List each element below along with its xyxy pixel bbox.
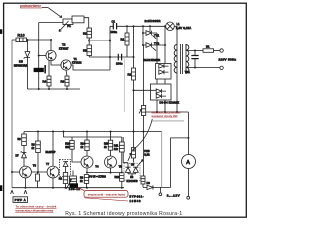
resistor R12	[115, 173, 125, 182]
wire y187.4	[143, 186, 171, 188]
svg-text:T7: T7	[46, 162, 50, 166]
diode D9	[147, 181, 154, 189]
svg-text:R12: R12	[115, 176, 120, 179]
node dot R3-R5	[88, 40, 90, 42]
thyristor TY2	[143, 42, 165, 51]
wire zener branch x27.4	[26, 40, 28, 89]
resistor R11 box	[72, 16, 84, 23]
wire y26.3 rail	[110, 25, 166, 27]
svg-text:BYP401-: BYP401-	[130, 195, 144, 199]
svg-text:B1: B1	[206, 45, 210, 49]
wire bottom rail y187.7	[12, 187, 124, 189]
resistor R2	[128, 68, 136, 80]
svg-text:220V 50Hz: 220V 50Hz	[219, 57, 237, 61]
wire to D8 tops	[123, 158, 133, 163]
diode D8b	[133, 167, 138, 174]
svg-text:T4-T5 = KT503: T4-T5 = KT503	[89, 176, 107, 179]
trimmer R16	[139, 45, 146, 132]
resistor R1	[121, 26, 130, 57]
transformer TR1	[174, 44, 190, 74]
zener D5	[14, 52, 30, 68]
arrow terminal 2	[24, 190, 27, 194]
diode bus right x165	[164, 26, 166, 63]
wire y89 rail	[27, 88, 80, 90]
svg-text:Rys. 1 Schemat ideowy prostown: Rys. 1 Schemat ideowy prostownika Rosura…	[65, 211, 182, 217]
wire T1 emitter down	[66, 70, 67, 76]
svg-text:D1-D2 KD202R: D1-D2 KD202R	[144, 59, 161, 62]
wire y90.3 feed	[134, 89, 157, 91]
terminal output left	[159, 187, 162, 195]
svg-text:bezpiecznik - znacznie lepiej: bezpiecznik - znacznie lepiej	[88, 192, 125, 196]
central spine x133.5	[133, 26, 135, 131]
diode module box1	[156, 64, 172, 80]
svg-text:A: A	[186, 160, 190, 166]
diode column x65.5	[63, 162, 68, 173]
diode D1	[159, 64, 169, 68]
zener D7	[16, 151, 27, 166]
wire pot right jog to R3	[84, 18, 89, 28]
svg-text:podświetlenie: podświetlenie	[20, 4, 41, 8]
diode D4	[156, 94, 166, 98]
red annotation 4: bottom left text	[14, 205, 56, 213]
red annotation 2: middle right	[133, 110, 185, 151]
node dot R10 right	[26, 39, 28, 41]
wire y57 rail	[89, 56, 133, 58]
terminal 220V bottom	[220, 66, 223, 69]
wire x38.7 down	[38, 23, 40, 90]
svg-text:10N40: 10N40	[130, 199, 142, 203]
wire T2 base left	[39, 55, 46, 57]
resistor column x38	[32, 131, 56, 173]
resistor R3	[83, 28, 92, 38]
terminal 220V top	[220, 49, 223, 52]
wire primary bottom	[186, 68, 220, 75]
capacitor C4	[191, 51, 198, 68]
wire rail stub x150	[149, 26, 151, 33]
T4 T5 emitter bus	[87, 168, 122, 173]
resistor R13	[137, 132, 145, 188]
resistor R6	[61, 76, 70, 89]
svg-text:R3: R3	[83, 32, 87, 36]
resistor R11 on return wire	[119, 142, 124, 152]
wire T4 top	[86, 151, 88, 157]
svg-text:BZP683C9V1: BZP683C9V1	[14, 64, 28, 67]
svg-text:L1: L1	[177, 22, 180, 26]
transistor T7	[46, 162, 59, 178]
wire x188.4 main output	[187, 112, 189, 155]
wires between module boxes	[157, 79, 165, 84]
svg-text:2xKD202R: 2xKD202R	[145, 19, 161, 23]
resistor R5	[83, 45, 92, 57]
svg-text:R6: R6	[61, 80, 65, 84]
svg-text:D9: D9	[147, 181, 151, 185]
thyristor TY1	[143, 31, 160, 39]
arrow terminal 1	[11, 190, 14, 194]
page border	[4, 3, 247, 217]
transistor T5	[105, 156, 123, 168]
trimmer P2B	[128, 132, 150, 162]
wire T7 emitter	[52, 178, 54, 188]
svg-text:D5: D5	[19, 60, 23, 64]
gray node line down	[124, 57, 126, 112]
diode D8a	[125, 163, 130, 174]
potentiometer P1 small box	[63, 19, 73, 28]
svg-text:wzmacniacz akumulatorowy: wzmacniacz akumulatorowy	[14, 209, 53, 213]
wire y112 output bus	[146, 111, 188, 113]
box x65.5 lower	[59, 173, 68, 188]
left edge mark 1	[0, 29, 2, 34]
svg-text:P1: P1	[67, 24, 71, 28]
svg-text:T5: T5	[119, 164, 123, 168]
svg-text:KD105B: KD105B	[127, 180, 138, 183]
svg-text:3,3k: 3,3k	[144, 153, 150, 157]
wire lamp to transformer	[174, 26, 177, 44]
left edge mark 2	[0, 185, 2, 191]
transistor T4	[81, 156, 99, 168]
capacitor C3	[116, 54, 123, 66]
resistor column x72	[65, 137, 81, 162]
svg-text:T6: T6	[33, 163, 37, 167]
fuse B1	[203, 45, 220, 53]
svg-text:R2: R2	[128, 73, 132, 77]
battery label box	[13, 197, 28, 203]
svg-text:R10: R10	[18, 34, 25, 38]
wire R3R5 node right	[89, 40, 110, 42]
ammeter A	[182, 155, 196, 169]
svg-text:wstawić diody KD: wstawić diody KD	[151, 114, 178, 118]
svg-text:T2: T2	[62, 43, 66, 47]
wire T1 collector right	[71, 65, 110, 70]
dashed box D6 D8	[124, 163, 140, 180]
svg-text:100n: 100n	[116, 62, 123, 66]
svg-text:R1: R1	[121, 38, 125, 42]
svg-text:C1: C1	[112, 20, 116, 24]
svg-text:100n: 100n	[111, 30, 118, 34]
potentiometer wiper arrow	[59, 21, 69, 32]
wire pot left lead	[39, 22, 63, 24]
wires module2 bottoms to y112	[157, 100, 165, 112]
svg-text:KT3107: KT3107	[59, 46, 69, 50]
resistor column x110.5	[104, 132, 113, 151]
lamp L1	[166, 22, 192, 31]
transistor T2	[46, 43, 69, 61]
diode D3	[156, 89, 166, 93]
wire rail y131.5	[24, 131, 162, 133]
small box below coupling	[36, 172, 40, 188]
svg-text:KT3102: KT3102	[72, 61, 82, 65]
wire T6 base from x12	[12, 171, 20, 173]
diode bus left x157	[156, 33, 158, 64]
wire ammeter to terminal	[187, 169, 189, 197]
wire x110 down	[109, 26, 111, 70]
wire T6 emitter	[25, 178, 27, 188]
capacitor C1	[111, 20, 118, 34]
wire TY anode bus	[142, 26, 144, 45]
red annotation 3: bottom box with leader	[78, 187, 129, 201]
capacitor C2	[34, 65, 46, 73]
svg-text:D3-D4 KD202K: D3-D4 KD202K	[160, 102, 180, 105]
node dots y89	[38, 88, 40, 90]
svg-text:R5: R5	[83, 49, 87, 53]
red annotation 1: top text with leader	[20, 4, 62, 18]
rail y137	[63, 132, 123, 188]
wire transformer secondary down	[176, 74, 178, 112]
svg-text:T4: T4	[95, 164, 99, 168]
wire T2 collector down	[48, 60, 50, 76]
diode pair bottom bus	[128, 174, 136, 177]
terminal output right	[187, 196, 190, 199]
svg-text:2,5V 0,15A: 2,5V 0,15A	[176, 26, 191, 30]
resistor column x87	[81, 132, 90, 151]
diode module box2	[151, 84, 172, 100]
wire R10 row y40	[12, 39, 51, 41]
svg-text:2...12V: 2...12V	[167, 193, 181, 197]
transistor T1	[61, 57, 82, 70]
resistor R17 column x24	[18, 132, 27, 153]
coupling wire T6 T7	[31, 171, 47, 173]
svg-text:T1: T1	[74, 57, 78, 61]
wire T7 top	[52, 132, 54, 167]
wire T5 top	[110, 150, 112, 156]
potentiometer P3	[66, 171, 80, 191]
resistor R10	[16, 34, 27, 42]
wire left bus x12	[11, 40, 13, 188]
gray return wire	[161, 132, 163, 188]
diode D2	[159, 70, 169, 74]
svg-text:PWF A: PWF A	[15, 198, 26, 202]
wire T2 emitter up	[50, 40, 52, 50]
transistor T6	[20, 163, 37, 178]
svg-text:BL10/TIP: BL10/TIP	[46, 151, 56, 154]
svg-text:R4: R4	[43, 80, 47, 84]
resistor R4	[43, 76, 52, 89]
wire T2 collector to T1 base	[51, 61, 61, 65]
resistor below T4	[80, 175, 89, 188]
wire branch x170.6	[171, 138, 189, 188]
dashed box around lower diode	[60, 160, 71, 177]
wire primary top to fuse	[186, 44, 203, 51]
